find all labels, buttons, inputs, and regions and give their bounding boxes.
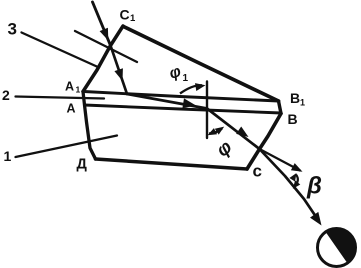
exit face normal with arrow xyxy=(260,149,301,171)
svg-text:C: C xyxy=(120,7,130,23)
plate bottom surface A-B xyxy=(85,105,282,113)
svg-text:B: B xyxy=(290,90,300,106)
prism 1 left edge A-D xyxy=(83,92,96,160)
svg-text:φ: φ xyxy=(167,63,183,83)
plate right end B1-B xyxy=(279,101,282,114)
svg-text:β: β xyxy=(306,173,322,200)
svg-text:3: 3 xyxy=(8,20,17,39)
pointer line label 3 xyxy=(22,33,100,68)
svg-text:1: 1 xyxy=(4,148,12,164)
prism 3 top edge C1-B1 xyxy=(124,27,279,102)
ray inside prism 1 xyxy=(207,109,260,150)
svg-text:1: 1 xyxy=(300,98,305,108)
svg-text:A: A xyxy=(67,102,76,116)
svg-text:B: B xyxy=(288,111,298,127)
pointer line label 1 xyxy=(16,136,118,158)
svg-text:c: c xyxy=(253,162,262,181)
refracted ray inside prism 3 xyxy=(111,46,128,95)
pointer line label 2 xyxy=(16,97,105,99)
normal at entry point xyxy=(75,31,137,62)
eye symbol dark segment xyxy=(326,229,356,264)
svg-text:φ: φ xyxy=(213,137,237,162)
prism 1 right face B-C xyxy=(247,114,281,170)
angle beta arc xyxy=(294,175,298,188)
angle phi arc xyxy=(209,129,222,134)
svg-text:Д: Д xyxy=(77,157,88,173)
normal at layer boundary xyxy=(206,82,208,139)
exit ray to eye xyxy=(260,149,318,219)
plate top surface A1-B1 xyxy=(84,92,279,102)
svg-text:A: A xyxy=(65,80,74,94)
svg-text:1: 1 xyxy=(130,13,136,24)
svg-text:1: 1 xyxy=(183,73,189,84)
incident ray xyxy=(93,2,111,46)
prism 1 bottom edge D-C xyxy=(96,159,248,169)
angle phi1 arc xyxy=(180,85,202,93)
prism 3 left face C1-A1 xyxy=(83,26,123,92)
eye symbol circle xyxy=(318,229,356,267)
ray in liquid layer 2 xyxy=(127,94,207,109)
svg-text:1: 1 xyxy=(76,85,81,95)
svg-text:2: 2 xyxy=(2,87,10,103)
